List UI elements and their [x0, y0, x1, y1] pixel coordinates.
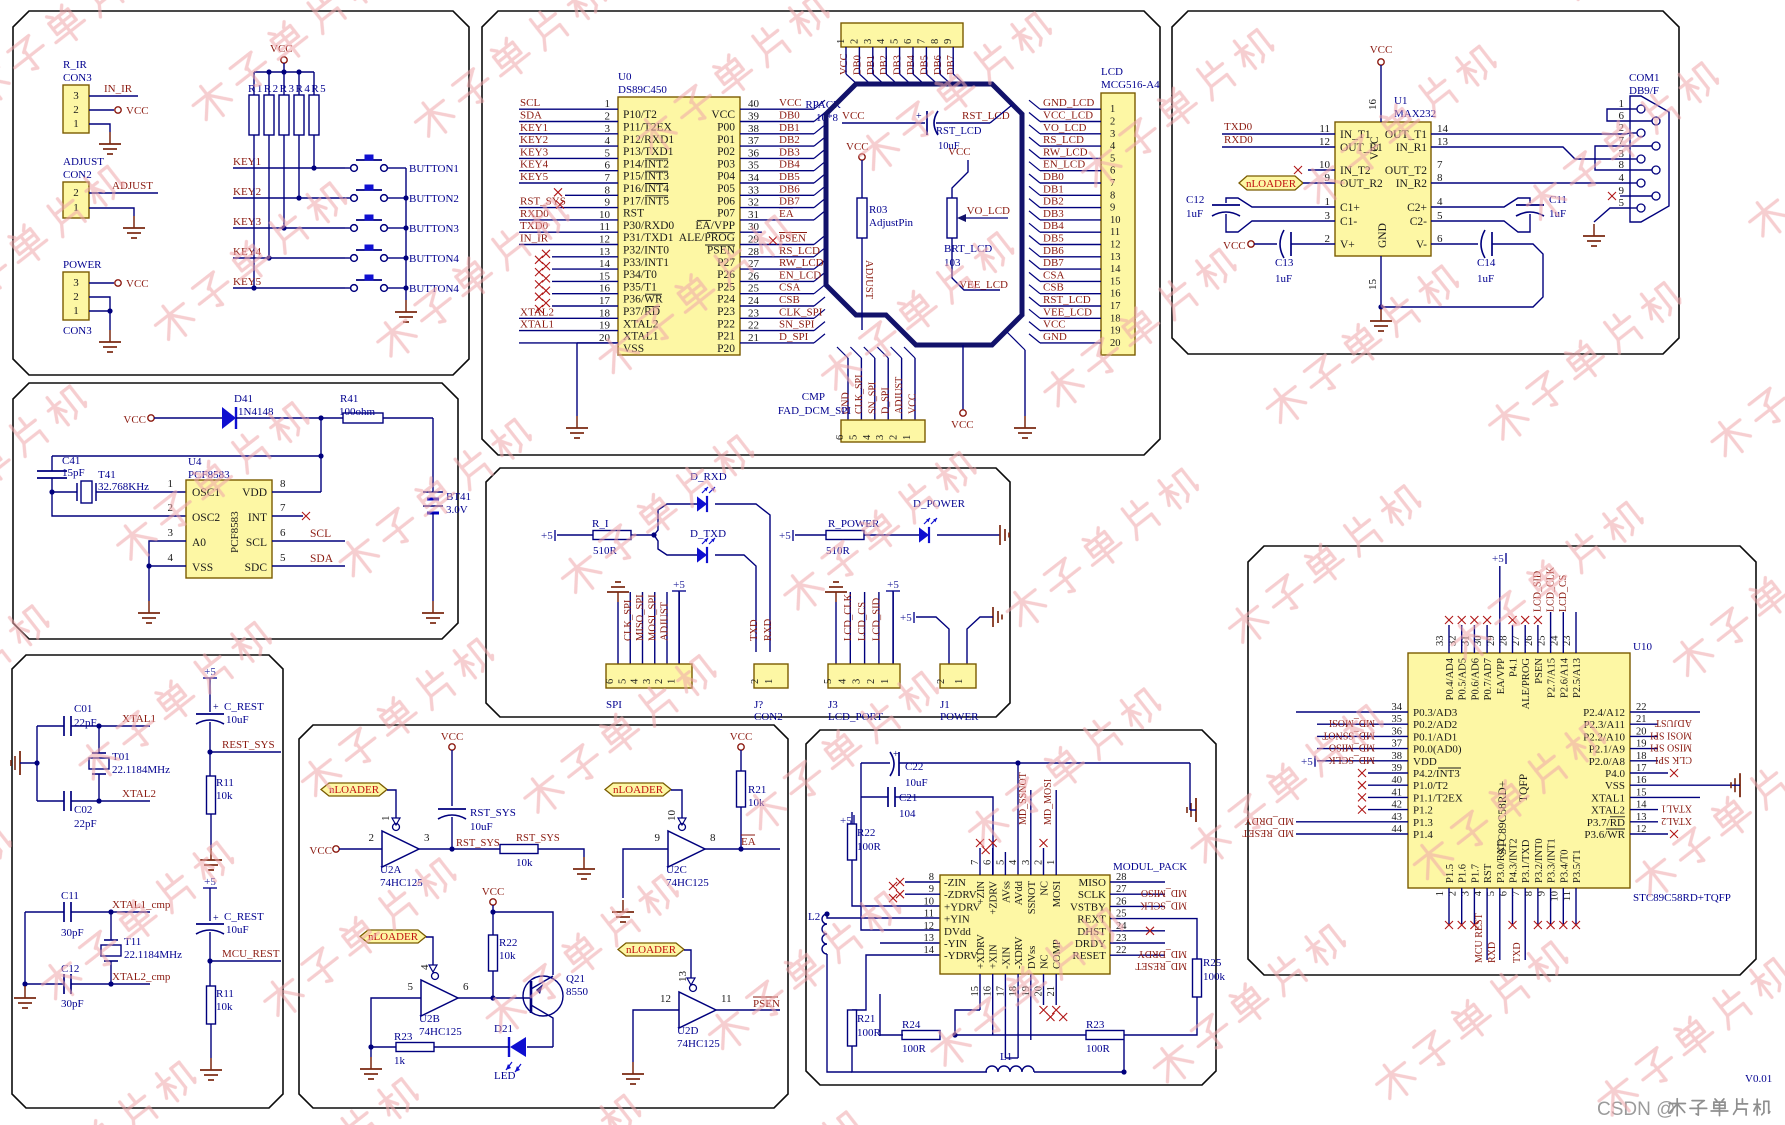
wire R24 junction to R23: [955, 1034, 1086, 1036]
ground buttons: [405, 300, 407, 312]
svg-text:6: 6: [605, 160, 611, 172]
svg-text:IN_R1: IN_R1: [1396, 142, 1428, 154]
U10 right overlines RD WR: [1610, 816, 1625, 818]
svg-text:RXD: RXD: [763, 618, 774, 641]
connector COM1 DB9 outline: [1630, 96, 1669, 222]
wire RXD0 to pin12: [1222, 146, 1335, 148]
wire VCC rail to emitter: [492, 905, 494, 936]
svg-text:33: 33: [1435, 636, 1446, 647]
svg-text:VCC: VCC: [839, 53, 850, 75]
wire ADJUST signal: [89, 192, 158, 194]
junction at POWER pin1: [107, 308, 112, 313]
U0 pin20 VSS wire to ground: [577, 342, 618, 344]
svg-text:CSB: CSB: [779, 294, 800, 306]
svg-text:VCC: VCC: [126, 278, 149, 290]
resistor R3: [279, 95, 289, 135]
svg-text:P20: P20: [717, 343, 735, 355]
svg-text:1k: 1k: [394, 1055, 406, 1067]
svg-text:2: 2: [73, 291, 79, 303]
svg-text:P35/T1: P35/T1: [623, 281, 657, 293]
wire BUTTON1 to common: [390, 167, 406, 169]
ground U1: [1380, 309, 1382, 321]
svg-text:VCC: VCC: [123, 414, 146, 426]
svg-text:EN_LCD: EN_LCD: [779, 269, 821, 281]
svg-text:3: 3: [168, 527, 174, 539]
wire L2 bottom rail: [827, 954, 852, 1072]
svg-text:2: 2: [750, 679, 761, 684]
wire ground to J1 pin1: [967, 617, 993, 664]
svg-text:RS_LCD: RS_LCD: [779, 245, 820, 257]
svg-text:4: 4: [862, 434, 873, 440]
svg-text:RST: RST: [1483, 863, 1494, 883]
svg-text:R25: R25: [1203, 957, 1222, 969]
wire VCC to U1 pin16: [1380, 65, 1382, 122]
svg-text:R24: R24: [902, 1019, 921, 1031]
svg-text:R21: R21: [857, 1013, 875, 1025]
wire INT stub: [272, 515, 303, 517]
svg-text:XTAL2: XTAL2: [122, 788, 156, 800]
svg-text:DS89C450: DS89C450: [618, 84, 667, 96]
svg-text:D_SPI: D_SPI: [881, 387, 892, 414]
svg-text:IN_IR: IN_IR: [104, 83, 133, 95]
svg-text:VO_LCD: VO_LCD: [967, 205, 1010, 217]
svg-text:VO_LCD: VO_LCD: [1043, 122, 1086, 134]
wire A0-VSS tie: [149, 541, 186, 566]
svg-text:5: 5: [1437, 210, 1443, 222]
button BUTTON1: [351, 165, 358, 172]
svg-text:P05: P05: [717, 183, 735, 195]
no-connect X right rows: [1670, 769, 1678, 777]
svg-text:OSC2: OSC2: [192, 512, 220, 524]
wire battery to ground: [432, 520, 434, 601]
svg-text:13: 13: [677, 971, 689, 983]
wire L2 to +YIN: [827, 914, 940, 918]
svg-text:17: 17: [1110, 301, 1121, 312]
svg-text:VCC: VCC: [1370, 44, 1393, 56]
wire IN_R2 to DB9 pin4: [1431, 182, 1630, 184]
wire left rail upper: [36, 726, 38, 801]
svg-text:-ZDRV: -ZDRV: [944, 889, 977, 901]
IC U4 PCF8583 body: [186, 480, 272, 578]
button BUTTON3: [351, 225, 358, 232]
wire +5 to C_REST lower: [209, 888, 211, 921]
svg-text:C1-: C1-: [1340, 216, 1357, 228]
svg-text:P04: P04: [717, 171, 735, 183]
svg-text:V+: V+: [1340, 239, 1355, 251]
svg-text:POWER: POWER: [940, 711, 979, 723]
svg-text:PCF8583: PCF8583: [229, 511, 241, 553]
svg-text:19: 19: [1110, 326, 1121, 337]
junction XTAL1_cmp: [108, 909, 113, 914]
svg-text:VDD: VDD: [242, 487, 267, 499]
svg-text:3: 3: [863, 39, 874, 44]
svg-text:VCC: VCC: [908, 393, 919, 414]
junction REST_SYS: [207, 749, 212, 754]
wire module to VCC stub: [962, 345, 964, 410]
svg-text:8: 8: [1110, 190, 1115, 201]
svg-text:P3.0/RXD: P3.0/RXD: [1496, 839, 1507, 883]
svg-text:1uF: 1uF: [1275, 273, 1292, 285]
svg-text:2: 2: [889, 435, 900, 440]
svg-text:BUTTON1: BUTTON1: [409, 163, 459, 175]
IC U0 DS89C450 body: [618, 97, 740, 355]
svg-text:4: 4: [1619, 172, 1625, 184]
button BUTTON4: [351, 255, 358, 262]
svg-text:4: 4: [837, 678, 848, 684]
svg-text:39: 39: [748, 111, 760, 123]
svg-text:ADJUST: ADJUST: [660, 601, 671, 641]
LED D_TXD: [697, 547, 707, 562]
block border: companion MCU: [1248, 546, 1756, 975]
svg-text:-XIN: -XIN: [1001, 946, 1012, 969]
block border: MCU and LCD module: [482, 11, 1160, 455]
MODUL right wires: [1110, 881, 1165, 883]
svg-text:VCC: VCC: [948, 146, 971, 158]
U0 right wire entry slashes: [814, 100, 825, 109]
wire nLOADER to U2B enable: [426, 937, 433, 971]
svg-text:DB6: DB6: [1043, 245, 1064, 257]
svg-text:P36/WR: P36/WR: [623, 294, 663, 306]
LED D21 arrows: [506, 1062, 512, 1070]
wire L1 to R23 riser: [1034, 1040, 1124, 1072]
svg-text:12: 12: [1110, 240, 1121, 251]
wire D41 to junction: [236, 417, 344, 419]
svg-text:VSS: VSS: [192, 562, 213, 574]
resistor RST_SYS 10k: [500, 845, 538, 854]
svg-text:74HC125: 74HC125: [677, 1038, 720, 1050]
wire R22 to +YDRV: [852, 860, 940, 906]
svg-text:C1+: C1+: [1340, 202, 1360, 214]
svg-text:18: 18: [599, 307, 611, 319]
wire C13 to pin2: [1291, 243, 1335, 245]
ground lower crystals: [24, 986, 26, 998]
svg-text:2: 2: [73, 104, 79, 116]
svg-text:SPI: SPI: [606, 699, 622, 711]
wire +5 to C_REST: [209, 678, 211, 712]
resistor R23 1k: [396, 1043, 434, 1052]
svg-text:nLOADER: nLOADER: [613, 784, 664, 796]
resistor R22 10k: [489, 935, 498, 971]
wire POWER pin3 to VCC: [89, 282, 114, 284]
junction button common BUTTON3: [403, 225, 408, 230]
svg-text:5: 5: [605, 147, 611, 159]
svg-text:6: 6: [463, 981, 469, 993]
svg-text:8550: 8550: [566, 986, 589, 998]
svg-text:+YIN: +YIN: [944, 914, 970, 926]
svg-text:RS_LCD: RS_LCD: [1043, 134, 1084, 146]
MODUL left stub wires: [905, 881, 940, 883]
svg-text:2: 2: [73, 187, 79, 199]
svg-text:SCL: SCL: [246, 537, 267, 549]
junction VSS: [146, 563, 151, 568]
wire C14 return to GND: [1381, 244, 1543, 307]
svg-text:VCC_LCD: VCC_LCD: [1043, 110, 1093, 122]
power VCC at POWER: [115, 280, 121, 286]
wire VCC to D41: [154, 417, 222, 419]
svg-text:P1.4: P1.4: [1413, 829, 1433, 841]
svg-text:P24: P24: [717, 294, 735, 306]
junction top rail: [1015, 760, 1020, 765]
wire R23 to input rail: [371, 1046, 396, 1048]
crystal T01 22.1184MHz: [98, 726, 100, 753]
svg-text:LCD_CS: LCD_CS: [857, 602, 868, 641]
diode D41 1N4148: [222, 407, 236, 429]
MODUL bottom stubs: [979, 974, 981, 1010]
svg-text:35: 35: [748, 160, 760, 172]
wire REST_SYS out: [210, 751, 281, 753]
svg-text:C_REST: C_REST: [224, 701, 264, 713]
svg-text:VCC: VCC: [730, 731, 753, 743]
svg-text:U4: U4: [188, 456, 202, 468]
svg-text:2: 2: [849, 39, 860, 44]
junction KEY3: [281, 225, 286, 230]
svg-text:XTAL2_cmp: XTAL2_cmp: [112, 971, 171, 983]
svg-text:BUTTON2: BUTTON2: [409, 193, 459, 205]
svg-text:+5: +5: [779, 530, 791, 542]
no-connect X top pins: [976, 839, 984, 847]
svg-text:P34/T0: P34/T0: [623, 269, 657, 281]
block border: gyro module pack: [806, 730, 1216, 1085]
svg-text:IN_IR: IN_IR: [520, 233, 549, 245]
wire U2D input: [633, 1010, 679, 1062]
svg-text:P2.0/A8: P2.0/A8: [1589, 756, 1626, 768]
wire C21 row: [861, 796, 888, 798]
junction XTAL2_cmp: [108, 981, 113, 986]
svg-text:5: 5: [617, 679, 628, 684]
svg-text:C11: C11: [61, 890, 79, 902]
svg-text:P21: P21: [717, 331, 735, 343]
svg-text:MD_SCLK: MD_SCLK: [1140, 899, 1187, 910]
svg-text:TXD: TXD: [1512, 942, 1523, 963]
wire OSC2 loop: [52, 492, 186, 516]
svg-text:VCC: VCC: [951, 419, 974, 431]
svg-text:U0: U0: [618, 71, 632, 83]
svg-text:32: 32: [748, 197, 759, 209]
svg-text:2: 2: [605, 111, 611, 123]
svg-text:BUTTON4: BUTTON4: [409, 253, 459, 265]
svg-text:P07: P07: [717, 208, 735, 220]
svg-text:C2-: C2-: [1410, 216, 1427, 228]
svg-text:KEY5: KEY5: [233, 276, 262, 288]
junction LED fork: [651, 532, 656, 537]
wire R25 to R23 row: [1124, 997, 1197, 1035]
svg-text:EA/VPP: EA/VPP: [1496, 658, 1507, 694]
svg-text:1N4148: 1N4148: [238, 406, 274, 418]
resistor R23 100R: [1086, 1031, 1124, 1040]
svg-text:R_IR: R_IR: [63, 59, 88, 71]
svg-text:21: 21: [748, 332, 759, 344]
svg-text:DB3: DB3: [1043, 208, 1064, 220]
svg-text:CSA: CSA: [779, 282, 800, 294]
svg-text:19: 19: [599, 320, 611, 332]
svg-text:1: 1: [605, 98, 611, 110]
svg-text:OUT_R2: OUT_R2: [1340, 178, 1383, 190]
junction KEY4: [266, 255, 271, 260]
U0 left pin wires: [519, 108, 618, 110]
svg-text:8: 8: [930, 39, 941, 44]
svg-text:RXD0: RXD0: [1224, 134, 1253, 146]
svg-text:5: 5: [280, 552, 286, 564]
svg-text:MD_DRDY: MD_DRDY: [1138, 948, 1187, 959]
svg-text:10uF: 10uF: [226, 714, 249, 726]
svg-text:CSB: CSB: [1043, 282, 1064, 294]
svg-text:3: 3: [73, 277, 79, 289]
capacitor C41 15pF: [37, 470, 67, 472]
junction rail: [318, 453, 323, 458]
svg-text:RST: RST: [623, 208, 644, 220]
ground U4: [148, 601, 150, 613]
svg-text:13: 13: [1110, 252, 1121, 263]
svg-text:14: 14: [924, 945, 935, 956]
resistor R11 upper 10k: [209, 752, 211, 776]
wire IN_R1 to DB9 pin3: [1431, 147, 1630, 159]
wire nLOADER to U2C enable: [671, 790, 682, 824]
svg-text:AVss: AVss: [1001, 881, 1012, 903]
svg-text:P0.3/AD3: P0.3/AD3: [1413, 707, 1458, 719]
svg-text:DB2: DB2: [879, 55, 890, 75]
junction R23 right: [1121, 1069, 1126, 1074]
svg-text:1uF: 1uF: [1186, 208, 1203, 220]
ground upper RC: [210, 848, 212, 860]
svg-text:P02: P02: [717, 146, 735, 158]
wire KEY1 row: [233, 167, 345, 169]
svg-text:MISO: MISO: [1078, 877, 1106, 889]
svg-text:D_SPI: D_SPI: [779, 331, 809, 343]
svg-text:KEY5: KEY5: [520, 171, 549, 183]
svg-text:P3.2/INT0: P3.2/INT0: [1534, 838, 1545, 883]
wires into SPI connector: [617, 602, 619, 664]
svg-text:MCU_REST: MCU_REST: [222, 948, 280, 960]
svg-text:C41: C41: [62, 455, 80, 467]
ground DB9: [1593, 224, 1595, 236]
connector CMP FAD_DCM_SPI body: [841, 420, 925, 442]
svg-text:Q21: Q21: [566, 973, 585, 985]
svg-text:DB7: DB7: [1043, 257, 1064, 269]
svg-text:J?: J?: [754, 699, 763, 711]
junction XTAL2: [96, 798, 101, 803]
svg-text:XTAL1: XTAL1: [1591, 792, 1625, 804]
resistor R11 lower 10k: [209, 961, 211, 987]
svg-text:P30/RXD0: P30/RXD0: [623, 220, 674, 232]
svg-text:DVdd: DVdd: [944, 926, 971, 938]
wire pin6 to C14: [1431, 243, 1478, 245]
wire XTAL2_cmp out: [111, 983, 150, 985]
svg-text:MISO_SPI: MISO_SPI: [635, 594, 646, 641]
svg-text:INT: INT: [248, 512, 267, 524]
svg-text:KEY4: KEY4: [520, 159, 549, 171]
wire KEY2 row: [233, 197, 345, 199]
crystal T41 32.768KHz: [81, 481, 92, 503]
svg-text:7: 7: [280, 502, 286, 514]
wire ADJUST pin1 to ground: [89, 208, 134, 216]
svg-text:-XDRV: -XDRV: [1014, 936, 1025, 969]
svg-text:XTAL1: XTAL1: [520, 319, 554, 331]
svg-text:P1.2: P1.2: [1413, 805, 1433, 817]
wire KEY3 row: [233, 227, 345, 229]
svg-text:U2C: U2C: [666, 864, 687, 876]
svg-text:26: 26: [748, 270, 760, 282]
svg-text:1: 1: [880, 679, 891, 684]
junction KEY1: [311, 165, 316, 170]
block border: RTC PCF8583: [13, 383, 458, 639]
wire R03 to ADJUST exit: [861, 238, 863, 330]
wire +5 to R_I: [557, 534, 593, 536]
svg-text:DB7: DB7: [779, 196, 800, 208]
svg-text:V-: V-: [1416, 239, 1427, 251]
wire VCC to resistor tops: [283, 63, 285, 72]
wire U2C input: [623, 849, 668, 898]
wire OUT_T1 to DB9 pin2: [1431, 133, 1626, 135]
wire R22 top: [851, 812, 853, 824]
svg-text:+5: +5: [1301, 756, 1313, 768]
svg-text:R41: R41: [340, 393, 358, 405]
svg-text:VCC: VCC: [482, 886, 505, 898]
svg-text:MD_SCLK: MD_SCLK: [1328, 754, 1375, 765]
svg-text:10k: 10k: [499, 950, 516, 962]
ground right of D_POWER: [999, 525, 1001, 545]
no-connect X DB9 pin9: [1608, 192, 1616, 200]
svg-text:VCC: VCC: [1223, 240, 1246, 252]
svg-text:4: 4: [1437, 196, 1443, 208]
svg-text:L1: L1: [1000, 1051, 1012, 1063]
junction button common BUTTON4: [403, 285, 408, 290]
LCD connector wires: [1040, 108, 1101, 110]
svg-text:D_TXD: D_TXD: [690, 528, 726, 540]
svg-text:P3.4/T0: P3.4/T0: [1559, 849, 1570, 883]
svg-text:38: 38: [748, 123, 760, 135]
svg-text:P1.5: P1.5: [1445, 864, 1456, 883]
svg-text:P3.3/INT1: P3.3/INT1: [1547, 838, 1558, 883]
capacitor C13 1uF: [1280, 230, 1284, 258]
svg-text:DB5: DB5: [779, 171, 800, 183]
svg-text:FAD_DCM_SPI: FAD_DCM_SPI: [778, 405, 851, 417]
resistor R22 100R: [848, 824, 857, 860]
svg-text:DB4: DB4: [1043, 220, 1064, 232]
svg-text:CLK_SPI: CLK_SPI: [854, 375, 865, 414]
svg-text:P2.5/A13: P2.5/A13: [1572, 658, 1583, 698]
svg-text:14: 14: [599, 258, 611, 270]
svg-text:+5: +5: [541, 530, 553, 542]
svg-text:D21: D21: [494, 1023, 513, 1035]
svg-text:13: 13: [924, 933, 935, 944]
svg-text:RST_SYS: RST_SYS: [516, 833, 560, 844]
svg-text:7: 7: [916, 39, 927, 44]
svg-text:2: 2: [1325, 233, 1331, 245]
svg-text:VSS: VSS: [1605, 780, 1625, 792]
svg-text:P1.0/T2: P1.0/T2: [1413, 780, 1448, 792]
svg-text:nLOADER: nLOADER: [1246, 178, 1297, 190]
svg-text:P25: P25: [717, 281, 735, 293]
wire +XDRV to R24 row: [955, 1010, 980, 1035]
svg-text:P3.7/RD: P3.7/RD: [1587, 817, 1625, 829]
svg-text:1: 1: [1619, 98, 1625, 110]
svg-text:9: 9: [943, 39, 954, 44]
svg-text:1: 1: [1435, 891, 1446, 896]
svg-text:P3.6/WR: P3.6/WR: [1584, 829, 1625, 841]
svg-text:2: 2: [866, 679, 877, 684]
svg-text:20: 20: [1110, 338, 1121, 349]
svg-text:RST_LCD: RST_LCD: [1043, 294, 1091, 306]
svg-text:P22: P22: [717, 318, 735, 330]
svg-text:P1.6: P1.6: [1458, 864, 1469, 883]
wire nLOADER to U2A enable: [387, 790, 396, 824]
wire R21 to bottom rail: [852, 1046, 987, 1072]
svg-text:EA: EA: [741, 836, 756, 848]
svg-text:3.0V: 3.0V: [446, 504, 468, 516]
power VCC at U1: [1378, 59, 1384, 65]
LED D21: [510, 1037, 526, 1057]
wire D_RXD to RXD column: [715, 504, 770, 652]
